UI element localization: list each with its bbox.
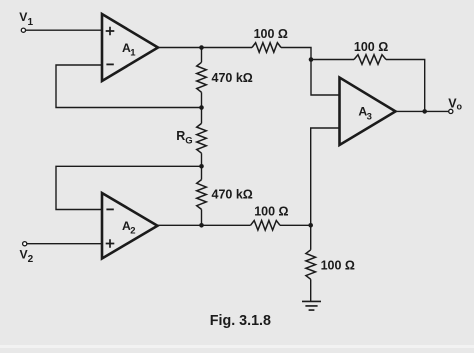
wire: N3 up to A3 bottom input (311, 128, 340, 225)
wire: A1 output to 100-ohm R1 (158, 47, 252, 49)
A2 plus pin symbol (106, 239, 115, 248)
wire: N3 down to R4 (310, 225, 312, 250)
node N3: A3 non-inverting net (308, 223, 313, 228)
svg-text:470 kΩ: 470 kΩ (212, 71, 253, 85)
svg-text:470 kΩ: 470 kΩ (212, 188, 253, 202)
wire: R1 to node N2 (281, 48, 311, 60)
resistor R1 100 ohm (252, 43, 281, 53)
wire: N2 down to A3 top input (311, 60, 340, 96)
terminal V2 (23, 242, 27, 246)
svg-text:100 Ω: 100 Ω (254, 204, 288, 218)
node B: junction RG/470k lower (199, 164, 204, 169)
wire: node A to RG (201, 108, 203, 124)
A2 minus pin symbol (106, 208, 113, 210)
resistor R4 100 ohm (to ground) (306, 250, 316, 279)
wire: A2 output to 100-ohm R3 (158, 224, 251, 226)
wire: A1 inverting feedback loop (56, 65, 202, 108)
wire: A2 inverting feedback loop (56, 166, 202, 209)
svg-text:100 Ω: 100 Ω (254, 27, 288, 41)
terminal V1 (21, 28, 25, 32)
wire: R2 to output node (386, 60, 425, 112)
wire: R4 to ground (310, 279, 312, 301)
op-amp A2 (102, 193, 158, 259)
wire: 470k upper to node A (201, 92, 203, 107)
node: A2 output junction (199, 223, 204, 228)
op-amp A1 (102, 14, 158, 81)
wire: RG to node B (201, 153, 203, 166)
svg-text:Fig. 3.1.8: Fig. 3.1.8 (210, 313, 271, 329)
node N2: A3 inverting input net (309, 57, 314, 62)
resistor 470k upper (197, 62, 207, 92)
wire: R3 to node N3 (280, 224, 311, 226)
wire: N2 to feedback resistor R2 (311, 59, 354, 61)
resistor 470k lower (197, 180, 207, 210)
svg-text:100 Ω: 100 Ω (321, 258, 355, 272)
ground symbol (302, 301, 321, 310)
op-amp A3 (340, 78, 396, 146)
svg-text:100 Ω: 100 Ω (354, 40, 388, 54)
node A: junction 470k/RG (199, 105, 204, 110)
bottom edge light strip (0, 345, 474, 348)
wire: 470k lower to A2 output node (201, 209, 203, 225)
node: output junction (422, 109, 427, 114)
resistor R2 100 ohm (feedback) (354, 55, 386, 65)
wire: V2 input to A2 + (27, 243, 102, 245)
wire: A3 output to Vo (396, 110, 449, 112)
resistor R3 100 ohm (251, 221, 281, 231)
A1 minus pin symbol (106, 63, 113, 65)
A1 plus pin symbol (106, 27, 115, 36)
wire: A1 out node down to node A (201, 48, 203, 63)
wire: node B to 470k lower (201, 166, 203, 179)
node: A1 output junction (199, 45, 204, 50)
resistor RG (197, 123, 207, 153)
wire: V1 input to A1 + (26, 29, 102, 31)
terminal Vo (449, 109, 453, 113)
